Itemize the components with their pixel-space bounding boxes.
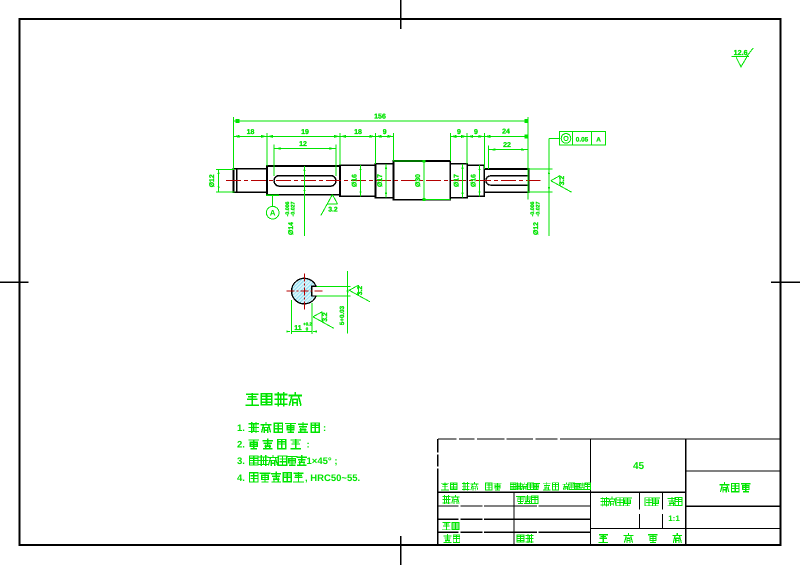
extension line x=527.9 through shaft end <box>527 117 529 200</box>
svg-text:1.: 1. <box>237 423 245 434</box>
svg-text:Ø30: Ø30 <box>415 174 422 187</box>
section centerline cross <box>286 290 323 292</box>
column line x=685.8 <box>685 439 687 545</box>
svg-text:Ø17: Ø17 <box>377 174 384 187</box>
bili label <box>668 497 676 505</box>
roughness 3.2 keyway side <box>313 312 334 329</box>
line under 45 cell handled above; stage mark cell lines <box>639 492 641 509</box>
row line below sheji <box>438 505 459 507</box>
svg-text:Ø17: Ø17 <box>454 174 461 187</box>
svg-text::: : <box>307 440 310 451</box>
part name che lun zhou <box>720 483 729 492</box>
extension line x=233.5 <box>233 117 235 169</box>
dimension row: 18,19,18,9 left chain <box>234 135 394 137</box>
dimension 11 keyway depth <box>290 300 292 334</box>
sheji label <box>443 496 450 504</box>
svg-text:9: 9 <box>457 129 461 136</box>
svg-text:12.6: 12.6 <box>734 48 748 57</box>
svg-text:Ø12: Ø12 <box>209 174 216 187</box>
gongyi label <box>444 535 451 543</box>
centering mark left <box>0 281 29 283</box>
svg-text:-0.027: -0.027 <box>291 202 297 217</box>
svg-text:2.: 2. <box>237 440 245 451</box>
svg-text:Ø16: Ø16 <box>352 174 359 187</box>
svg-text:3.2: 3.2 <box>559 176 566 186</box>
svg-text:156: 156 <box>374 114 386 121</box>
shaft segment 1 outline <box>234 169 268 192</box>
svg-text:9: 9 <box>474 129 478 136</box>
dimension 156 overall <box>234 120 528 122</box>
svg-text:A: A <box>270 209 276 218</box>
svg-text:Ø14: Ø14 <box>288 222 295 235</box>
svg-text:9: 9 <box>383 129 387 136</box>
svg-text:A: A <box>596 136 601 143</box>
svg-text:Ø16: Ø16 <box>471 174 478 187</box>
svg-text:11: 11 <box>294 325 302 332</box>
dimension row: 9,9,24 right chain <box>450 135 528 137</box>
svg-text:3.: 3. <box>237 456 245 467</box>
tolerance frame leader <box>549 138 560 140</box>
keyway slot on segment 8 (open ended) <box>486 176 529 185</box>
shaft segment 5 outline <box>394 161 451 200</box>
roughness 3.2 right end face <box>551 176 572 193</box>
svg-text:3.2: 3.2 <box>357 286 364 296</box>
biaozhunhua label <box>517 496 525 503</box>
centering mark top <box>400 0 402 29</box>
svg-text:1×45° ;: 1×45° ; <box>307 456 338 467</box>
right column lines <box>686 470 781 472</box>
shaft segment 7 outline <box>467 165 484 196</box>
shaft segment 2 outline <box>267 166 340 195</box>
extension overlay lines Ø30 <box>394 160 425 162</box>
svg-text:19: 19 <box>301 129 309 136</box>
title block left border <box>437 439 439 452</box>
title block row line below biaoji <box>438 491 686 493</box>
tech requirements title <box>246 394 258 406</box>
jieduanbiaoji label <box>601 497 609 506</box>
main centerline <box>226 179 541 181</box>
dimension Ø12 left end <box>218 169 220 191</box>
svg-text:22: 22 <box>503 142 511 149</box>
concentricity tolerance frame <box>560 132 606 146</box>
shaft segment 6 outline <box>450 164 467 198</box>
centering mark bottom <box>400 536 402 565</box>
svg-text:4.: 4. <box>237 473 245 484</box>
centering mark right <box>771 281 800 283</box>
svg-text:1:1: 1:1 <box>668 514 680 523</box>
row line below shenhe <box>438 531 459 533</box>
column line x=590.4 <box>589 439 591 545</box>
svg-text:0.05: 0.05 <box>576 136 589 143</box>
dimension Ø12 right with tolerance <box>548 139 550 236</box>
svg-text::: : <box>323 423 326 434</box>
dimension 22 keyway length right <box>489 149 528 151</box>
zhongliang label <box>645 498 652 506</box>
svg-text:-0.027: -0.027 <box>536 202 542 217</box>
dimension Ø16 segment7 <box>479 165 481 196</box>
shaft segment 4 outline <box>376 164 394 198</box>
roughness 3.2 keyway width face <box>349 285 370 302</box>
svg-text:18: 18 <box>354 129 362 136</box>
dimension 12 keyway length <box>274 148 336 150</box>
gong zhang di zhang row <box>599 534 607 542</box>
biaoji header row <box>441 483 448 490</box>
row line 3 <box>438 518 459 520</box>
pizhun label <box>517 535 524 542</box>
chamfer line left end <box>236 169 238 192</box>
dimension Ø17 segment4 <box>385 164 387 198</box>
svg-text:45: 45 <box>633 461 645 472</box>
svg-text:12: 12 <box>299 141 307 148</box>
keyway slot on segment 2 <box>274 176 336 187</box>
dimension 5 keyway width <box>317 285 351 287</box>
shaft segment 8 outline <box>484 169 528 192</box>
svg-text:, HRC50~55.: , HRC50~55. <box>305 473 360 484</box>
column line x=514 <box>513 492 515 545</box>
roughness 3.2 below segment 2 <box>321 195 338 216</box>
shaft segment 3 outline <box>340 165 376 196</box>
extension lines for chain dims <box>266 133 268 166</box>
dimension Ø17 segment6 <box>462 164 464 198</box>
dimension Ø30 segment5 <box>423 161 425 200</box>
dimension Ø16 segment3 <box>360 165 362 196</box>
dimension Ø14 with tolerance <box>304 166 306 236</box>
title block top border <box>438 438 457 440</box>
datum A symbol <box>266 194 279 196</box>
svg-text:3.2: 3.2 <box>322 312 329 322</box>
svg-text:Ø12: Ø12 <box>533 222 540 235</box>
shenhe label <box>443 522 451 529</box>
svg-text:3.2: 3.2 <box>328 207 338 214</box>
svg-text:5+0.03: 5+0.03 <box>339 305 346 325</box>
section circle outline with keyway notch <box>292 278 317 304</box>
svg-text:24: 24 <box>502 129 510 136</box>
svg-text:18: 18 <box>247 129 255 136</box>
